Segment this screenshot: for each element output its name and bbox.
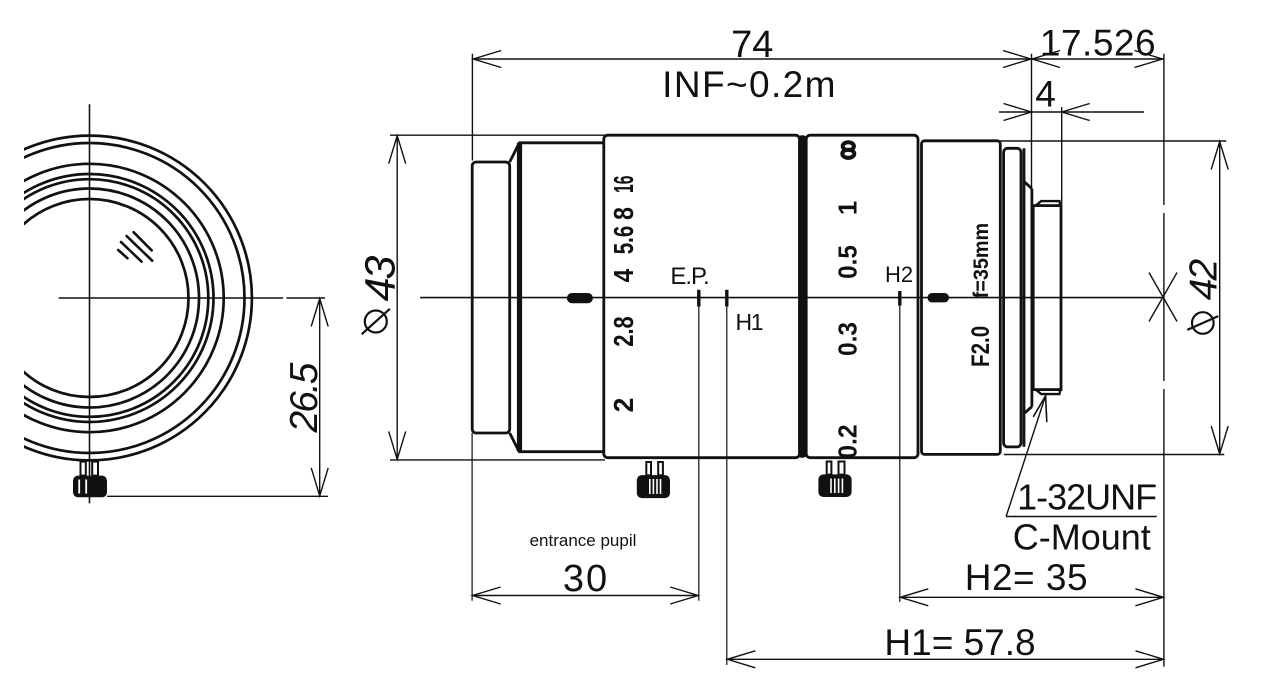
svg-text:16: 16 [608, 175, 639, 193]
aperture ring [604, 135, 800, 458]
side view knob under focus ring [827, 462, 845, 475]
svg-text:42: 42 [1182, 259, 1225, 301]
C-mount thread cylinder 1-32UNF [1033, 206, 1061, 390]
dimension 4 [999, 107, 1144, 204]
svg-text:0.5: 0.5 [832, 245, 862, 279]
side view horizontal centerline [420, 297, 1162, 299]
glass reflection hatch marks [118, 232, 152, 261]
svg-text:8: 8 [608, 207, 639, 220]
focus scale infinity symbol [842, 142, 854, 158]
dimension 74 [472, 54, 1031, 161]
aperture index mark (black pill) [567, 293, 593, 303]
svg-text:C-Mount: C-Mount [1013, 517, 1151, 558]
svg-text:0.2: 0.2 [832, 424, 862, 459]
svg-text:2: 2 [608, 398, 639, 413]
svg-text:4: 4 [1035, 74, 1056, 115]
dimension H2= 35 [900, 596, 1164, 598]
svg-text:H1= 57.8: H1= 57.8 [884, 622, 1035, 663]
svg-text:5.6: 5.6 [608, 226, 639, 255]
svg-text:30: 30 [563, 558, 609, 600]
dimension phi43 [390, 135, 605, 460]
svg-text:H1: H1 [735, 309, 762, 335]
cone chamfer to fixed ring [510, 143, 521, 452]
svg-text:26.5: 26.5 [283, 362, 326, 433]
dimension H1= 57.8 [727, 658, 1164, 660]
svg-text:H2: H2 [885, 262, 913, 287]
fixed ring [518, 143, 604, 452]
front view: lens face concentric circles (clipped at left) [0, 136, 252, 461]
C-mount leader arrow [1006, 396, 1046, 517]
svg-text:4: 4 [608, 268, 639, 282]
svg-text:17.526: 17.526 [1040, 23, 1156, 64]
dimension 17.526 [1032, 54, 1164, 187]
dimension 30 [472, 433, 699, 601]
dimension 26.5 [107, 298, 328, 496]
svg-text:1-32UNF: 1-32UNF [1017, 477, 1156, 518]
thread relief lip [1036, 201, 1061, 394]
svg-text:43: 43 [356, 256, 404, 302]
svg-text:H2= 35: H2= 35 [965, 557, 1088, 598]
aperture scale numbers [608, 175, 639, 412]
rear step ring [1004, 148, 1021, 447]
front view thumb-screw knob stem [81, 462, 99, 476]
front view thumb-screw knob body [73, 476, 107, 498]
front view horizontal centerline [59, 297, 325, 299]
svg-text:0.3: 0.3 [832, 322, 862, 356]
focus ring [806, 135, 918, 458]
svg-text:1: 1 [832, 201, 862, 215]
mount neck chamfers [1024, 182, 1032, 414]
svg-text:entrance pupil: entrance pupil [530, 531, 637, 550]
side view knob under aperture ring [646, 462, 663, 475]
gap bar between aperture and focus rings [798, 135, 806, 458]
H1 tick and extension line [725, 290, 728, 307]
image plane line with cross mark [1149, 54, 1177, 667]
rear fixed ring (F2.0 f=35mm) [922, 141, 1001, 455]
svg-text:74: 74 [731, 24, 773, 66]
H2 tick and extension line [898, 291, 901, 306]
E.P. tick and extension line [697, 290, 700, 307]
front ring of barrel [472, 162, 510, 433]
focus index mark (black pill) [928, 293, 950, 302]
front view vertical centerline [89, 104, 91, 503]
svg-text:F2.0: F2.0 [967, 326, 995, 367]
svg-text:f=35mm: f=35mm [970, 223, 993, 299]
focus scale numbers [832, 201, 862, 459]
svg-text:INF~0.2m: INF~0.2m [662, 64, 837, 105]
dimension phi42 [1000, 141, 1226, 455]
svg-text:2.8: 2.8 [608, 316, 639, 347]
svg-text:E.P.: E.P. [670, 263, 708, 290]
